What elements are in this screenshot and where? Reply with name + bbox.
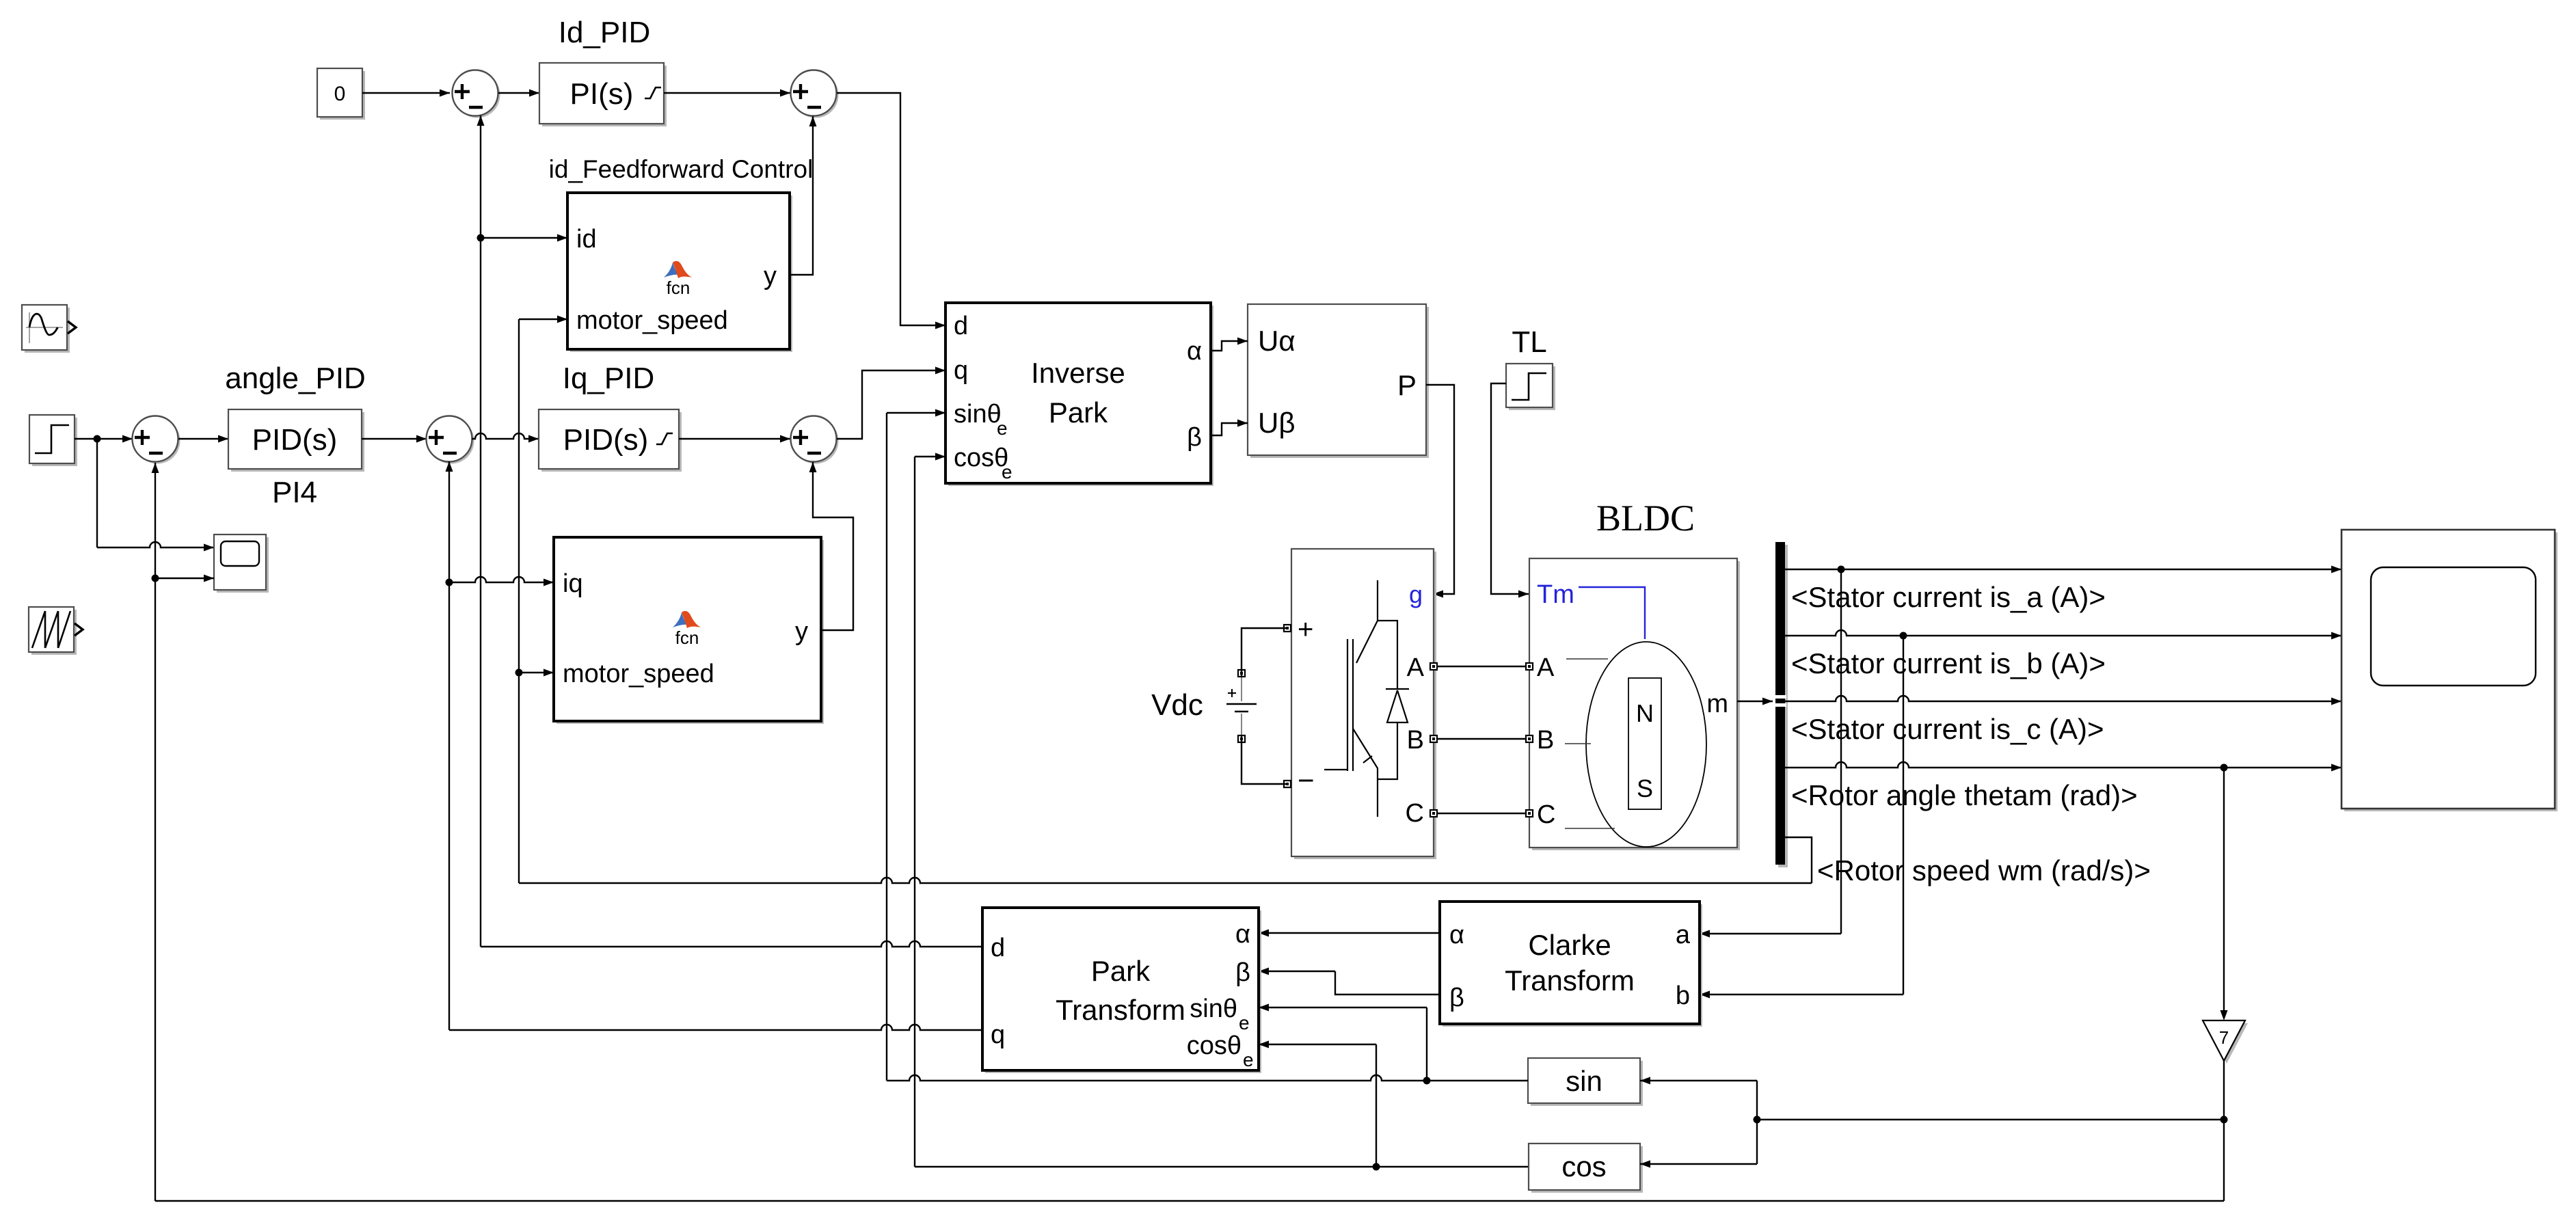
svg-text:a: a — [1676, 921, 1691, 949]
svg-text:e: e — [1239, 1012, 1250, 1033]
svg-text:PI4: PI4 — [272, 476, 317, 509]
block Id_PID PI(s) — [539, 63, 667, 126]
svg-text:e: e — [1002, 461, 1012, 483]
wire theta to sin input — [1640, 1077, 1761, 1165]
label Vdc — [1151, 688, 1203, 722]
block angle_PID PID(s) — [228, 409, 364, 472]
svg-text:β: β — [1187, 423, 1202, 452]
svg-text:α: α — [1449, 921, 1464, 949]
svg-text:A: A — [1537, 653, 1555, 682]
wire rotor angle dropline to goto tag 7 — [2221, 768, 2228, 1020]
svg-text:β: β — [1449, 984, 1464, 1012]
label Id_PID — [559, 16, 651, 49]
svg-text:g: g — [1409, 580, 1423, 608]
bus selector bar — [1774, 542, 1788, 867]
wire iq_Feedforward y output to sum S5 minus — [809, 462, 854, 630]
svg-text:TL: TL — [1512, 325, 1546, 359]
port square inverter B — [1430, 735, 1437, 742]
wire goto tag 7 output to theta nets — [155, 1061, 2228, 1201]
svg-text:d: d — [991, 934, 1005, 962]
svg-text:<Rotor speed wm (rad/s)>: <Rotor speed wm (rad/s)> — [1817, 854, 2151, 887]
wire motor_speed feedback riser (net wm) — [515, 316, 568, 884]
svg-text:sinθ: sinθ — [954, 400, 1002, 429]
svg-text:β: β — [1235, 958, 1250, 987]
label <Stator current is_a (A)> — [1791, 581, 2106, 613]
wire sum S2 to InversePark d input — [837, 93, 945, 329]
label <Rotor speed wm (rad/s)> — [1817, 854, 2151, 887]
wire angle feedback to sum S3 minus and small scope input 2 (net theta) — [152, 463, 215, 1201]
svg-text:0: 0 — [334, 83, 346, 105]
svg-text:id_Feedforward Control: id_Feedforward Control — [549, 155, 814, 183]
port square inverter C — [1430, 810, 1437, 817]
port square inverter minus — [1284, 781, 1291, 787]
block Clarke Transform — [1440, 902, 1702, 1027]
wire sum S3 to angle PID(s) — [178, 435, 228, 443]
svg-text:e: e — [997, 418, 1008, 439]
wire phase C inverter to BLDC — [1437, 813, 1526, 814]
sum S1 (+/-) — [453, 70, 500, 118]
wire angle PID(s) to sum S4 — [362, 435, 427, 443]
label PI4 — [272, 476, 317, 509]
wire sum S4 to Iq PID(s) with hops — [472, 433, 539, 443]
svg-text:<Stator current is_a (A)>: <Stator current is_a (A)> — [1791, 581, 2106, 613]
svg-text:N: N — [1636, 699, 1654, 727]
wire step to sum S3 with junction — [75, 435, 133, 443]
sawtooth (repeating sequence) source block — [29, 607, 83, 655]
wire InversePark alpha to U-alpha — [1211, 338, 1248, 351]
svg-text:α: α — [1235, 920, 1250, 949]
svg-text:cos: cos — [1561, 1150, 1606, 1182]
wire sin output to InversePark sin and Park sin — [887, 409, 1528, 1085]
wire cos output to InversePark cos and Park cos — [915, 453, 1528, 1171]
svg-text:C: C — [1537, 800, 1555, 829]
svg-text:+: + — [1298, 614, 1313, 645]
svg-text:q: q — [954, 356, 968, 385]
svg-text:Inverse: Inverse — [1031, 357, 1125, 389]
wire bus line 1 Stator current is_a — [1785, 566, 2342, 573]
block scope — [2342, 530, 2558, 811]
block iq_Feedforward (MATLAB fcn) — [554, 537, 824, 724]
svg-text:S: S — [1637, 774, 1653, 802]
svg-text:m: m — [1706, 690, 1728, 718]
svg-text:sin: sin — [1566, 1065, 1602, 1097]
wire sum S1 to PI(s) — [498, 90, 539, 97]
svg-text:Iq_PID: Iq_PID — [563, 362, 655, 395]
block TL step source — [1506, 364, 1555, 410]
DC voltage source Vdc symbol — [1226, 670, 1257, 742]
svg-text:angle_PID: angle_PID — [225, 362, 365, 395]
svg-text:PID(s): PID(s) — [252, 423, 338, 457]
svg-text:P: P — [1397, 369, 1417, 401]
port square inverter g — [0, 0, 1, 1]
svg-text:Uα: Uα — [1258, 325, 1296, 357]
block Park Transform — [982, 908, 1261, 1073]
svg-text:q: q — [991, 1020, 1005, 1049]
port square inverter plus — [1284, 625, 1291, 632]
wire is_b to Clarke b input — [1700, 636, 1903, 999]
constant block value 0 — [317, 68, 365, 120]
wire bus line 4 Rotor angle thetam — [1785, 762, 2342, 772]
svg-text:PID(s): PID(s) — [563, 423, 649, 457]
svg-text:Park: Park — [1091, 955, 1151, 987]
svg-text:y: y — [795, 617, 808, 646]
svg-text:7: 7 — [2219, 1027, 2229, 1048]
svg-text:fcn: fcn — [667, 278, 690, 298]
wire phase A inverter to BLDC — [1437, 666, 1526, 667]
wire step junction down to small scope input 1 — [97, 439, 214, 552]
label TL — [1512, 325, 1546, 359]
label BLDC — [1596, 498, 1695, 539]
svg-text:Transform: Transform — [1056, 994, 1185, 1026]
wire battery minus to inverter minus — [1242, 735, 1287, 784]
label <Stator current is_c (A)> — [1791, 713, 2104, 745]
svg-text:B: B — [1407, 726, 1424, 755]
wire PI(s) to sum S2 — [664, 90, 790, 97]
block id_Feedforward Control (MATLAB fcn) — [567, 193, 792, 352]
wire id feedback to sum S1 minus and id port (net id) — [477, 116, 568, 947]
svg-text:Id_PID: Id_PID — [559, 16, 651, 49]
sum S5 (+/-) — [791, 416, 839, 464]
wire InversePark beta to U-beta — [1211, 420, 1248, 436]
svg-text:Transform: Transform — [1505, 964, 1635, 997]
svg-text:B: B — [1537, 726, 1554, 755]
svg-text:Park: Park — [1049, 396, 1108, 429]
svg-text:<Stator current is_c (A)>: <Stator current is_c (A)> — [1791, 713, 2104, 745]
svg-text:cosθ: cosθ — [1187, 1031, 1242, 1060]
label Iq_PID — [563, 362, 655, 395]
svg-text:α: α — [1187, 337, 1202, 366]
wire sum S5 to InversePark q input — [837, 367, 945, 439]
inverter IGBT and diode icon — [1324, 580, 1409, 817]
port square BLDC B — [1526, 735, 1533, 742]
sum S2 (+/-) — [791, 70, 839, 118]
wire TL to BLDC Tm input — [1491, 383, 1529, 598]
wire iq feedback to sum S4 minus and iq port (net iq) — [446, 461, 554, 1030]
svg-text:PI(s): PI(s) — [570, 77, 634, 111]
wire id_Feedforward y output to sum S2 minus — [790, 116, 817, 275]
svg-text:<Stator current is_b (A)>: <Stator current is_b (A)> — [1791, 647, 2106, 679]
sine wave source block — [22, 305, 76, 353]
small scope block (angle display) — [214, 534, 269, 593]
svg-text:Uβ: Uβ — [1258, 407, 1296, 439]
svg-text:<Rotor angle thetam (rad)>: <Rotor angle thetam (rad)> — [1791, 779, 2138, 811]
svg-text:Clarke: Clarke — [1528, 929, 1611, 961]
svg-text:sinθ: sinθ — [1190, 994, 1237, 1023]
svg-text:BLDC: BLDC — [1596, 498, 1695, 539]
svg-text:b: b — [1676, 982, 1690, 1010]
step source block — [29, 415, 77, 466]
wire is_a to Clarke a input — [1700, 569, 1841, 938]
block BLDC machine — [1529, 558, 1740, 850]
block inverter universal bridge — [1291, 549, 1436, 859]
wire constant0 to sum S1 — [362, 90, 450, 97]
port square BLDC A — [1526, 663, 1533, 670]
svg-text:Tm: Tm — [1537, 580, 1574, 609]
block cos — [1529, 1143, 1643, 1193]
wire P output to inverter gate g — [1426, 385, 1454, 598]
block Iq_PID PID(s) — [539, 409, 682, 472]
svg-text:id: id — [576, 225, 597, 254]
goto tag triangle 7 — [2203, 1020, 2248, 1064]
wire phase B inverter to BLDC — [1437, 738, 1526, 740]
wire BLDC m output to bus selector — [1737, 698, 1773, 705]
wire Iq PID(s) to sum S5 — [679, 435, 790, 443]
wire bus line 3 Stator current is_c — [1785, 696, 2342, 705]
port square BLDC C — [1526, 810, 1533, 817]
svg-text:motor_speed: motor_speed — [576, 306, 728, 335]
sum S3 (+/-) — [133, 416, 180, 464]
svg-text:−: − — [1298, 764, 1315, 796]
BLDC rotor ellipse with magnet N S — [1565, 642, 1706, 847]
svg-text:A: A — [1407, 653, 1425, 682]
wire bus line 5 Rotor speed wm to feedback — [519, 837, 1812, 883]
block Inverse Park — [945, 303, 1213, 486]
svg-text:fcn: fcn — [675, 627, 699, 648]
svg-text:iq: iq — [563, 569, 583, 598]
wire Park q output to iq net — [449, 1025, 982, 1030]
svg-text:d: d — [954, 312, 968, 340]
svg-text:C: C — [1406, 799, 1424, 828]
wire Clarke alpha to Park alpha — [1259, 930, 1440, 937]
wire Park d output to id net — [481, 941, 982, 947]
label angle_PID — [225, 362, 365, 395]
svg-text:Vdc: Vdc — [1151, 688, 1203, 722]
label <Rotor angle thetam (rad)> — [1791, 779, 2138, 811]
wire battery plus to inverter plus — [1242, 628, 1287, 677]
block U alpha-beta P — [1248, 304, 1429, 458]
port square inverter A — [1430, 663, 1437, 670]
wire theta to cos input — [1640, 1161, 1757, 1168]
wire Clarke beta to Park beta — [1259, 968, 1440, 995]
svg-text:e: e — [1243, 1049, 1254, 1070]
sum S4 (+/-) — [427, 416, 474, 464]
label id_Feedforward Control — [549, 155, 814, 183]
svg-text:cosθ: cosθ — [954, 444, 1008, 472]
svg-text:y: y — [764, 262, 777, 290]
block sin — [1528, 1058, 1643, 1106]
svg-text:motor_speed: motor_speed — [563, 660, 714, 688]
label <Stator current is_b (A)> — [1791, 647, 2106, 679]
wire blue Tm tag line — [1579, 587, 1645, 639]
wire bus line 2 Stator current is_b — [1785, 630, 2342, 640]
